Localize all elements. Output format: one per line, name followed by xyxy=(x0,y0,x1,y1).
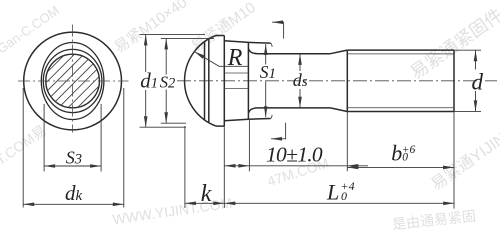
front view: horizontal centerline xyxy=(18,80,129,82)
svg-text:ds: ds xyxy=(293,70,308,90)
side view: dome flat bottom xyxy=(216,125,224,127)
watermark bottom-left xyxy=(0,120,50,169)
side view: bolt end face xyxy=(453,50,455,111)
svg-text:0: 0 xyxy=(402,152,408,164)
k extension lines xyxy=(185,126,224,208)
front view: square-neck chamfer circle (inner) xyxy=(43,49,102,112)
d extension lines xyxy=(454,50,481,111)
front view: square-neck corner circle (outer) xyxy=(41,43,104,120)
watermark top-mid-left xyxy=(110,0,191,57)
ds dimension line xyxy=(298,54,302,108)
front view: shank section circle xyxy=(46,54,100,108)
watermark right xyxy=(404,1,500,84)
side view: head step vertical xyxy=(223,36,225,127)
svg-text:S2: S2 xyxy=(160,73,176,92)
svg-text:S1: S1 xyxy=(260,62,276,82)
front view: head outer circle dk xyxy=(24,32,122,130)
k dimension line xyxy=(185,202,224,206)
side view: square neck bottom corner line xyxy=(248,118,270,121)
side view: shank top line xyxy=(249,49,331,54)
side view: dome chord line 2 xyxy=(208,39,210,123)
s3 extension lines xyxy=(44,104,101,172)
d1 extension lines xyxy=(140,34,205,127)
watermark bottom-center xyxy=(111,195,233,228)
svg-text:d: d xyxy=(472,70,484,95)
L dimension line xyxy=(224,202,454,206)
b extension line xyxy=(453,112,455,209)
svg-text:L: L xyxy=(326,180,339,205)
side view: thread root lines xyxy=(347,54,454,108)
side view: head bearing face xyxy=(247,42,249,119)
side view: thread taper top xyxy=(330,50,347,54)
b dimension line xyxy=(347,166,454,170)
s1 top hook leader xyxy=(272,20,284,38)
s1 dimension line xyxy=(264,44,268,117)
s2 dimension line xyxy=(164,38,168,123)
s3 dimension line xyxy=(44,164,101,168)
side view: thread major diameter bottom xyxy=(347,111,454,113)
side view: thread start vertical xyxy=(346,50,348,111)
side view: head bottom slope xyxy=(224,119,248,121)
dk dimension line xyxy=(23,203,124,207)
svg-text:k: k xyxy=(201,181,212,207)
R leader xyxy=(194,52,248,67)
front view: section hatching xyxy=(20,0,140,175)
side view: square neck top corner line xyxy=(248,41,270,44)
side view: thread major diameter top xyxy=(347,49,454,51)
watermark top-left xyxy=(0,3,62,57)
side view: centerline xyxy=(177,80,497,82)
dk extension lines xyxy=(23,88,124,208)
svg-text:dk: dk xyxy=(65,181,83,205)
d dimension line xyxy=(474,50,478,111)
side view: thread taper bottom xyxy=(330,108,347,112)
front view: vertical centerline xyxy=(72,25,74,133)
svg-text:d1: d1 xyxy=(140,69,158,93)
d1 dimension line xyxy=(144,34,148,127)
svg-text:b: b xyxy=(391,141,402,166)
side view: shank bottom line xyxy=(249,108,331,113)
s2 extension lines xyxy=(161,38,214,123)
svg-text:R: R xyxy=(227,45,243,71)
svg-text:10±1.0: 10±1.0 xyxy=(266,143,323,167)
side view: head top slope xyxy=(224,41,248,43)
s1 bottom hook leader xyxy=(271,123,286,141)
10±1.0 extension lines xyxy=(249,112,347,172)
10±1.0 dimension line with outside arrows xyxy=(225,164,369,168)
side view: head inner lines xyxy=(224,73,248,89)
watermark bottom-right xyxy=(425,125,500,195)
side view: dome arc of head R xyxy=(185,36,216,127)
svg-text:0: 0 xyxy=(341,189,347,203)
side view: dome chord line 1 xyxy=(204,42,206,120)
watermark top-center xyxy=(187,0,260,56)
svg-text:S3: S3 xyxy=(66,148,82,168)
side view: dome flat top xyxy=(216,35,224,37)
watermark center xyxy=(265,155,331,190)
